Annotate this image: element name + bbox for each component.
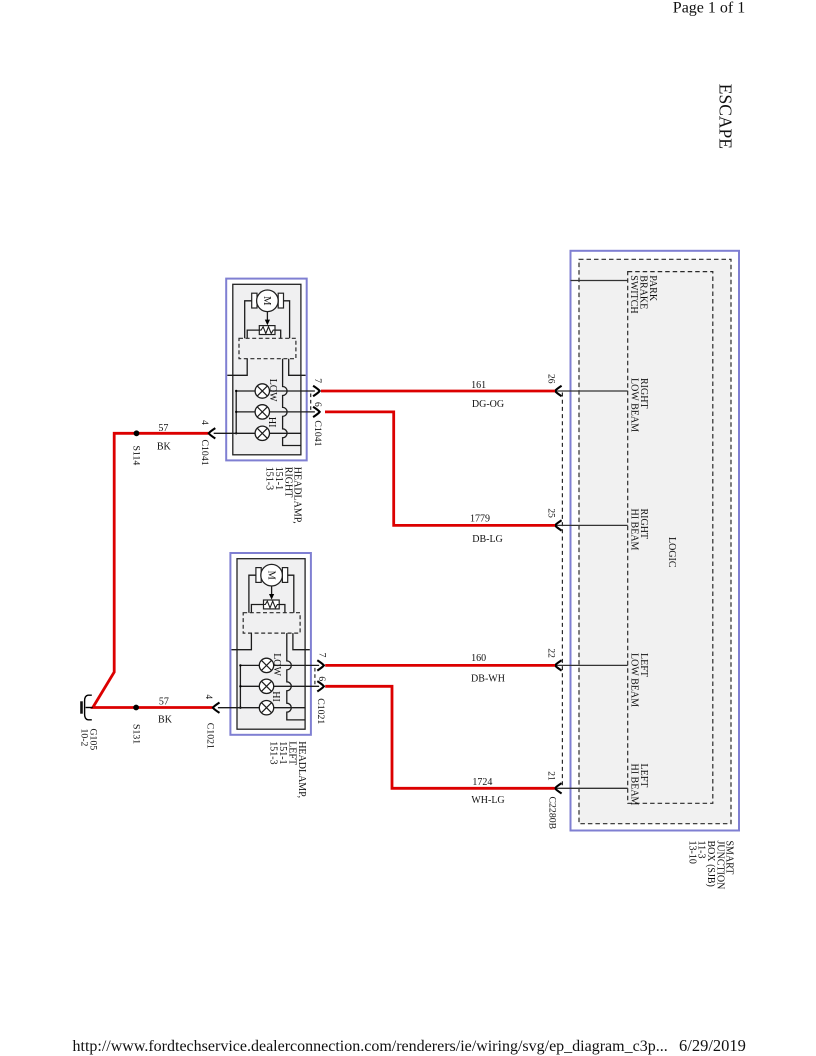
headlamp left bulb common hop wire	[287, 633, 305, 720]
svg-text:26: 26	[545, 374, 555, 384]
svg-text:http://www.fordtechservice.dea: http://www.fordtechservice.dealerconnect…	[73, 1038, 668, 1055]
svg-text:S114: S114	[130, 446, 141, 466]
svg-text:HI BEAM: HI BEAM	[629, 764, 640, 806]
splice S131	[133, 705, 139, 711]
headlamp right bus junction dots	[235, 390, 237, 435]
headlamp left case shelf right	[293, 633, 310, 650]
svg-text:22: 22	[545, 648, 555, 658]
SJB connector C2280B dashed line	[561, 393, 563, 788]
svg-text:1724: 1724	[472, 777, 492, 788]
svg-text:C1041: C1041	[312, 420, 323, 446]
svg-text:25: 25	[545, 508, 555, 518]
headlamp left motor wire right	[288, 575, 294, 613]
headlamp right case outline	[233, 284, 301, 455]
ground wire 57 BK	[93, 433, 213, 707]
svg-text:M: M	[261, 296, 272, 306]
SJB pin 26 line	[556, 390, 628, 392]
headlamp right leveling resistor	[259, 326, 275, 335]
headlamp left leveling module dashed box	[243, 613, 300, 633]
SJB LOGIC dashed box	[628, 272, 713, 804]
svg-text:DB-WH: DB-WH	[471, 673, 505, 684]
headlamp left pin 4 lead	[213, 703, 259, 713]
svg-text:6: 6	[316, 676, 326, 681]
headlamp right pin 7 lead	[270, 386, 320, 396]
svg-text:HI: HI	[266, 417, 277, 428]
headlamp left motor wire left	[249, 575, 256, 613]
svg-text:Page 1 of 1: Page 1 of 1	[673, 0, 745, 17]
svg-text:21: 21	[545, 771, 555, 781]
headlamp left pin 7 lead	[274, 660, 324, 670]
headlamp left motor shaft arrow	[269, 586, 274, 600]
headlamp left low beam bulb	[259, 658, 273, 672]
svg-text:7: 7	[312, 378, 322, 383]
headlamp right resistor wire right	[275, 330, 281, 338]
headlamp right motor brush tab right	[278, 293, 283, 308]
svg-text:C1021: C1021	[205, 723, 216, 749]
svg-text:C1021: C1021	[315, 698, 326, 724]
headlamp left pin 6 lead	[274, 681, 324, 691]
headlamp left resistor wire left	[251, 605, 263, 613]
headlamp right case shelf left	[227, 359, 247, 376]
headlamp right leveling module dashed box	[239, 338, 296, 358]
headlamp right motor wire left	[245, 301, 252, 339]
headlamp right LOW label	[267, 379, 278, 402]
svg-text:4: 4	[203, 694, 213, 699]
headlamp left motor brush tab left	[256, 568, 261, 583]
SJB pin 25 line	[556, 524, 628, 526]
headlamp left leveling motor	[261, 564, 283, 586]
headlamp left resistor wire right	[279, 605, 285, 613]
headlamp left HI label	[270, 691, 281, 702]
svg-text:C1041: C1041	[199, 440, 210, 466]
headlamp left case outline	[237, 559, 305, 730]
wire 1724 pin6 to pin21	[325, 686, 554, 788]
svg-text:DB-LG: DB-LG	[472, 534, 503, 545]
SJB pin 21 terminal arrow	[555, 783, 562, 793]
headlamp right HI label	[266, 417, 277, 428]
SJB pin 22 terminal arrow	[555, 660, 562, 670]
svg-text:S131: S131	[130, 724, 141, 744]
svg-text:LOW BEAM: LOW BEAM	[629, 653, 640, 707]
ground G105 bolt	[80, 701, 83, 713]
svg-text:1779: 1779	[470, 513, 490, 524]
headlamp left bulb bus wire	[240, 665, 259, 707]
headlamp right hi beam bulb	[255, 426, 269, 440]
headlamp right hi beam bulb right wire	[270, 432, 301, 434]
svg-text:7: 7	[316, 653, 326, 658]
headlamp left hi beam bulb right wire	[274, 707, 305, 709]
SJB pin 26 terminal arrow	[555, 386, 562, 396]
headlamp left pin 6 number	[316, 676, 326, 681]
headlamp right connector C1041 dashed line	[310, 394, 312, 411]
wire 1779 pin6 to pin25	[325, 412, 555, 526]
svg-text:BK: BK	[157, 441, 172, 452]
svg-text:ESCAPE: ESCAPE	[716, 84, 736, 149]
svg-text:HI BEAM: HI BEAM	[629, 509, 640, 551]
svg-text:4: 4	[199, 420, 209, 425]
SJB pin 22 line	[556, 664, 628, 666]
headlamp right pin 6 number	[312, 402, 322, 407]
headlamp left bus junction dots	[239, 664, 241, 709]
headlamp right motor brush tab left	[252, 293, 257, 308]
headlamp right motor wire right	[284, 301, 290, 339]
headlamp right pin 6 lead	[270, 407, 320, 417]
svg-text:6: 6	[312, 402, 322, 407]
headlamp right assembly box	[226, 279, 307, 461]
headlamp left motor brush tab right	[282, 568, 287, 583]
svg-text:6/29/2019: 6/29/2019	[679, 1036, 746, 1055]
park brake switch pin line	[571, 280, 628, 282]
headlamp left assembly box	[230, 553, 311, 735]
svg-text:DG-OG: DG-OG	[472, 399, 504, 410]
svg-text:HI: HI	[270, 691, 281, 702]
headlamp left case shelf left	[232, 633, 252, 650]
svg-text:161: 161	[471, 380, 486, 391]
headlamp right motor shaft arrow	[265, 312, 270, 326]
SJB pin 21 line	[556, 787, 628, 789]
headlamp right pin 7 number	[312, 378, 322, 383]
ground G105 bracket	[85, 695, 92, 720]
wire 160 pin7 to pin22	[325, 664, 555, 667]
headlamp left pin 4 number	[203, 694, 213, 699]
headlamp right connector label C1041 left	[199, 440, 210, 466]
headlamp left pin 7 number	[316, 653, 326, 658]
headlamp right park bulb	[255, 405, 269, 419]
svg-text:BK: BK	[158, 715, 173, 726]
wire 161 pin7 to pin26	[321, 390, 555, 393]
splice S114	[134, 430, 140, 436]
headlamp right low beam bulb	[255, 384, 269, 398]
headlamp right pin 4 number	[199, 420, 209, 425]
headlamp right bulb bus wire	[236, 391, 255, 433]
svg-text:160: 160	[471, 653, 486, 664]
SJB dashed border	[579, 259, 731, 823]
svg-text:LOW BEAM: LOW BEAM	[629, 378, 640, 432]
svg-text:57: 57	[158, 423, 168, 434]
headlamp left connector label C1021 right	[315, 698, 326, 724]
headlamp left hi beam bulb	[259, 701, 273, 715]
headlamp right leveling motor	[257, 290, 279, 312]
SJB outer box	[571, 251, 740, 831]
headlamp left park bulb	[259, 679, 273, 693]
headlamp left connector label C1021 left	[205, 723, 216, 749]
ground G105 stem	[86, 707, 93, 709]
headlamp right resistor wire left	[247, 330, 259, 338]
headlamp right bulb common hop wire	[283, 359, 301, 446]
headlamp left connector C1021 dashed line	[314, 668, 316, 685]
svg-text:WH-LG: WH-LG	[471, 795, 504, 806]
headlamp right connector label C1041 right	[312, 420, 323, 446]
svg-text:M: M	[265, 571, 276, 581]
headlamp left LOW label	[271, 653, 282, 676]
svg-text:LOGIC: LOGIC	[666, 537, 677, 568]
headlamp right case shelf right	[289, 359, 306, 376]
headlamp left leveling resistor	[264, 600, 280, 609]
svg-text:C2280B: C2280B	[547, 797, 558, 830]
SJB pin 25 terminal arrow	[555, 520, 562, 530]
svg-text:57: 57	[159, 697, 169, 708]
headlamp right pin 4 lead	[209, 428, 255, 438]
